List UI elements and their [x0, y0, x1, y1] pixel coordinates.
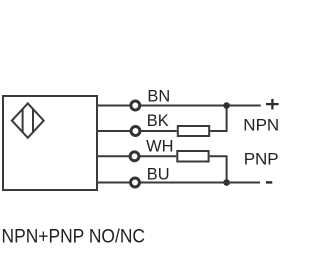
svg-text:NPN: NPN: [243, 115, 279, 134]
junction node on + rail: [223, 102, 230, 109]
resistor R1 (NPN load): [178, 126, 209, 136]
terminal circle BN: [131, 101, 140, 110]
sensor body U1: [3, 96, 97, 190]
proximity sensor symbol: [12, 103, 44, 137]
svg-text:PNP: PNP: [244, 149, 279, 168]
junction node on - rail: [223, 179, 230, 186]
wire BU (blue): [97, 182, 260, 184]
terminal circle BK: [131, 127, 140, 136]
svg-text:BN: BN: [147, 87, 170, 105]
svg-text:NPN+PNP NO/NC: NPN+PNP NO/NC: [2, 225, 146, 247]
wire BK to + rail: [210, 106, 226, 132]
wire WH (white): [97, 155, 176, 157]
terminal circle WH: [130, 152, 139, 161]
supply - symbol: [266, 181, 272, 183]
svg-text:BU: BU: [147, 166, 170, 184]
wire WH to - rail: [210, 156, 227, 182]
terminal circle BU: [131, 178, 140, 187]
svg-text:BK: BK: [147, 112, 169, 130]
resistor R2 (PNP load): [177, 151, 208, 162]
svg-text:WH: WH: [146, 138, 173, 156]
wire BN (brown): [97, 105, 261, 107]
supply + symbol: [266, 99, 279, 110]
wire BK (black): [97, 130, 177, 132]
